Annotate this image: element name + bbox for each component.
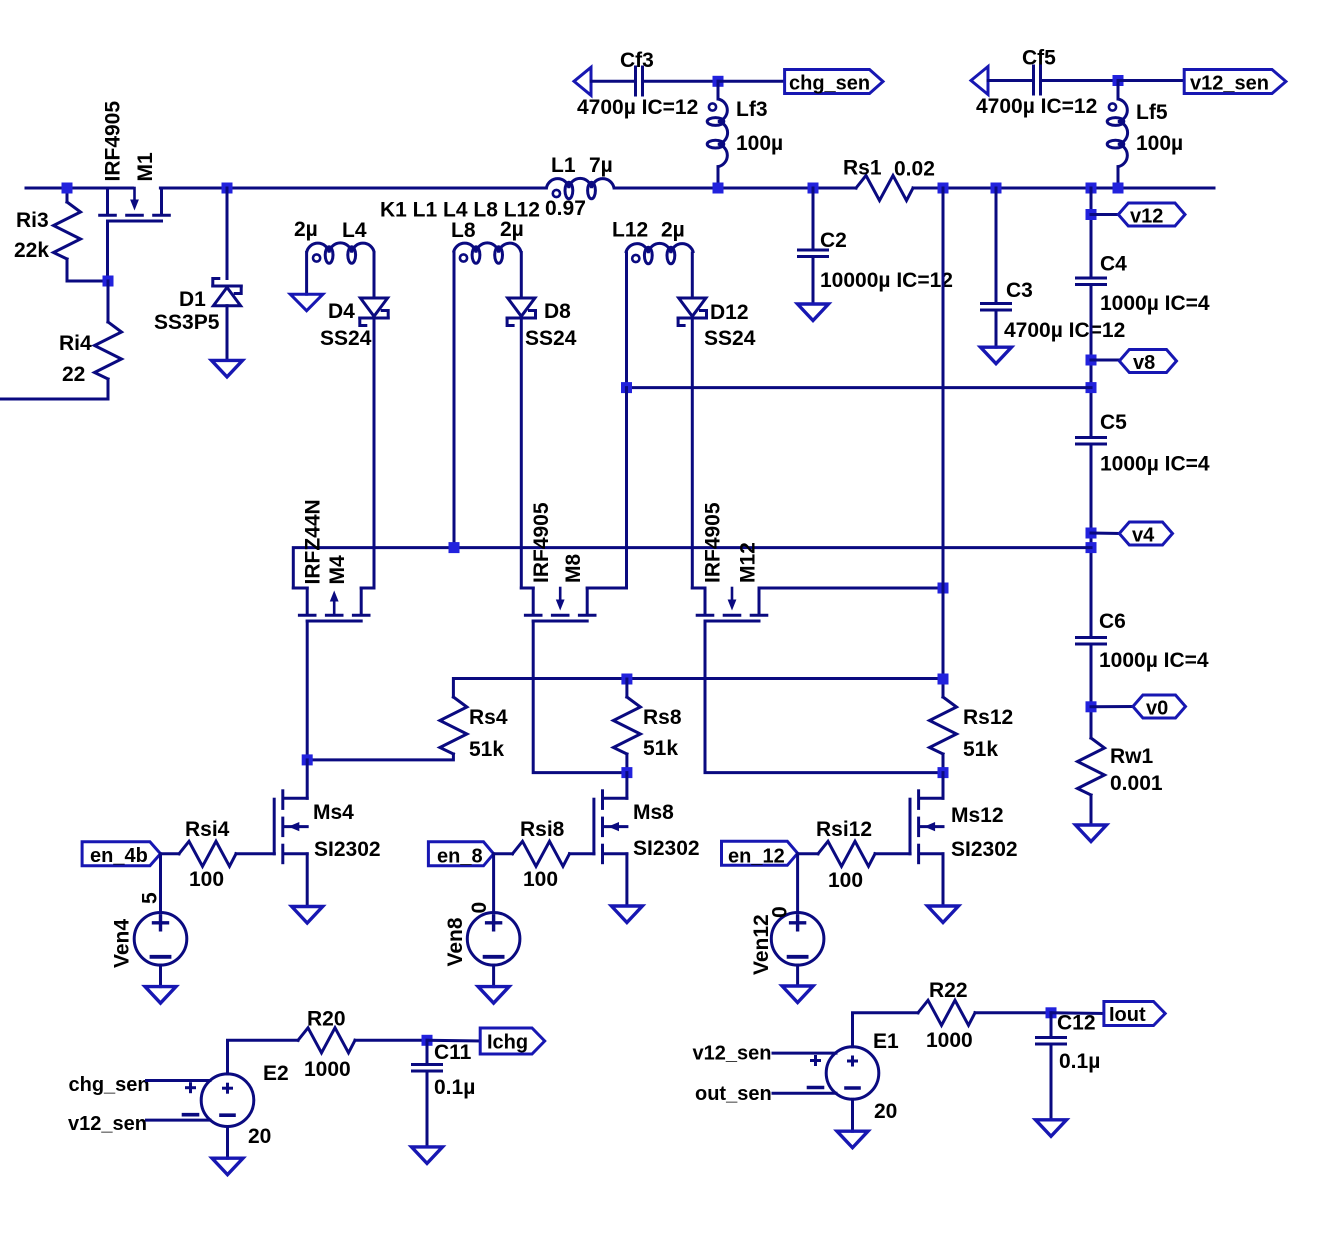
svg-text:Lf3: Lf3 — [736, 98, 768, 121]
wire L8 right to D8 — [520, 253, 523, 299]
inductor L8 — [454, 243, 522, 253]
wire L8 left down to v4 line — [453, 253, 456, 548]
svg-text:Rs8: Rs8 — [643, 706, 682, 729]
node junction R20-C11 — [422, 1035, 433, 1046]
source Ven4 — [134, 913, 187, 966]
svg-text:100µ: 100µ — [736, 132, 783, 155]
transistor M1 IRF4905 PMOS — [106, 188, 109, 214]
node junction chg_sen — [713, 76, 724, 87]
node junction bus-Rs12 line — [938, 183, 949, 194]
wire M1 gate to divider — [106, 221, 109, 281]
resistor R22 — [918, 1000, 975, 1025]
wire v4 tap — [1091, 532, 1119, 536]
capacitor C12 — [1050, 1013, 1053, 1038]
svg-text:v12_sen: v12_sen — [68, 1113, 147, 1135]
flag arrow L4 left — [290, 294, 323, 311]
diode D4 SS24 — [360, 298, 387, 316]
svg-text:4700µ IC=12: 4700µ IC=12 — [577, 96, 698, 119]
svg-text:0.97: 0.97 — [545, 197, 586, 220]
node junction bus-D1 — [222, 183, 233, 194]
svg-text:R20: R20 — [307, 1008, 346, 1031]
svg-text:Ri4: Ri4 — [59, 332, 92, 355]
svg-text:Ven4: Ven4 — [111, 919, 134, 968]
wire M4 gate down — [306, 621, 309, 760]
svg-text:IRF4905: IRF4905 — [102, 101, 125, 182]
svg-text:0.1µ: 0.1µ — [1059, 1050, 1100, 1073]
ground Ms4 — [292, 907, 323, 924]
node junction bus-C3 — [991, 183, 1002, 194]
svg-text:chg_sen: chg_sen — [69, 1074, 150, 1096]
ground Rw1 — [1076, 825, 1107, 842]
wire main 12V bus to L1 — [160, 187, 546, 190]
svg-text:M1: M1 — [134, 152, 157, 181]
svg-text:Rs1: Rs1 — [843, 157, 882, 180]
svg-text:v0: v0 — [1146, 698, 1168, 720]
resistor Rs1 — [856, 176, 913, 201]
ground E1 — [837, 1131, 868, 1148]
capacitor C2 — [812, 188, 815, 250]
svg-text:C2: C2 — [820, 229, 847, 252]
inductor L1 — [546, 178, 614, 188]
source E2 — [201, 1074, 254, 1127]
svg-text:M8: M8 — [562, 554, 585, 583]
svg-text:Rsi4: Rsi4 — [185, 818, 230, 841]
source Ven8 — [467, 913, 520, 966]
node junction gate divider — [103, 276, 114, 287]
wire M4 right rail — [361, 587, 374, 590]
wire Cf3 right to node — [643, 80, 719, 83]
svg-text:Iout: Iout — [1109, 1004, 1146, 1026]
node junction v0 tap — [1086, 701, 1097, 712]
capacitor Cf5 — [1032, 66, 1035, 94]
wire main 12V bus Rs1 to end — [913, 187, 1214, 190]
node junction R22-C12 — [1046, 1007, 1057, 1018]
svg-text:Cf3: Cf3 — [620, 49, 654, 72]
svg-text:Ms12: Ms12 — [951, 804, 1004, 827]
resistor Rsi4 — [161, 852, 180, 855]
wire en_8 down — [492, 854, 495, 913]
wire Ri4 bottom to edge — [0, 398, 108, 401]
ground Ven8 — [478, 987, 509, 1004]
resistor Rs4 — [440, 697, 467, 754]
wire node to chg_sen flag — [718, 80, 785, 83]
source E1 — [826, 1047, 879, 1100]
flag Ichg — [480, 1028, 545, 1054]
svg-text:v4: v4 — [1132, 525, 1155, 547]
wire bus to D1 — [226, 188, 229, 279]
svg-text:C6: C6 — [1099, 610, 1126, 633]
wire Cf5 right to node — [1041, 79, 1119, 82]
wire v12 tap — [1091, 213, 1118, 216]
svg-text:Rsi8: Rsi8 — [520, 818, 565, 841]
svg-text:100: 100 — [523, 868, 558, 891]
resistor Rsi8 — [494, 852, 513, 855]
capacitor C4 — [1077, 277, 1106, 280]
svg-text:C12: C12 — [1057, 1012, 1096, 1035]
node junction Rs12 top — [938, 674, 949, 685]
node junction v12_sen — [1113, 75, 1124, 86]
resistor Ri3 — [66, 188, 69, 202]
svg-text:2µ: 2µ — [500, 218, 524, 241]
wire D8 to M8 — [520, 318, 523, 588]
wire M8 left rail — [521, 587, 533, 590]
svg-text:IRF4905: IRF4905 — [702, 502, 725, 583]
wire E1 plus input — [773, 1052, 836, 1055]
wire M12 left rail — [692, 587, 705, 590]
diode D8 SS24 — [508, 298, 535, 316]
svg-text:0: 0 — [769, 906, 792, 918]
svg-text:1000µ IC=4: 1000µ IC=4 — [1099, 649, 1209, 672]
svg-text:Lf5: Lf5 — [1136, 101, 1168, 124]
node junction v4 line — [1086, 542, 1097, 553]
node junction v8 line — [1086, 382, 1097, 393]
node junction Lf3 bus — [713, 183, 724, 194]
svg-text:R22: R22 — [929, 979, 968, 1002]
inductor L4 — [307, 243, 375, 253]
source Ven12 — [771, 913, 824, 966]
svg-text:2µ: 2µ — [294, 218, 318, 241]
wire node to v12_sen flag — [1118, 79, 1184, 82]
flag en_12 — [722, 841, 798, 865]
resistor Rw1 — [1078, 738, 1105, 795]
wire E2 bottom — [226, 1127, 229, 1159]
svg-text:1000µ IC=4: 1000µ IC=4 — [1100, 292, 1210, 315]
wire L12 right to D12 — [691, 253, 694, 298]
flag v12 — [1118, 203, 1185, 226]
wire to Ichg flag — [427, 1039, 480, 1043]
wire Ven4 to ground — [159, 965, 162, 987]
node junction v12 tap — [1086, 209, 1097, 220]
diode D1 SS3P5 — [213, 285, 241, 288]
svg-text:L8: L8 — [451, 219, 476, 242]
flag v8 — [1119, 350, 1176, 373]
svg-text:10000µ IC=12: 10000µ IC=12 — [820, 269, 953, 292]
svg-text:Cf5: Cf5 — [1022, 47, 1056, 70]
svg-text:51k: 51k — [643, 737, 678, 760]
wire E1 minus input — [773, 1092, 836, 1095]
wire L4 left down — [305, 253, 308, 295]
svg-text:100: 100 — [189, 868, 224, 891]
svg-text:C4: C4 — [1100, 253, 1127, 276]
wire main 12V bus left segment — [26, 187, 133, 190]
flag v0 — [1133, 695, 1186, 718]
svg-text:SS24: SS24 — [704, 327, 756, 350]
svg-text:Ms8: Ms8 — [633, 801, 674, 824]
svg-text:L4: L4 — [342, 219, 367, 242]
svg-text:v12_sen: v12_sen — [1190, 73, 1269, 95]
svg-text:100µ: 100µ — [1136, 132, 1183, 155]
svg-text:IRFZ44N: IRFZ44N — [302, 499, 325, 584]
flag arrow Cf5 — [971, 67, 988, 95]
wire E1 bottom — [851, 1099, 854, 1131]
svg-text:out_sen: out_sen — [695, 1083, 772, 1105]
svg-text:22: 22 — [62, 363, 85, 386]
svg-text:v8: v8 — [1133, 352, 1155, 374]
wire M8 drain elbow up — [625, 388, 628, 588]
svg-text:22k: 22k — [14, 239, 49, 262]
wire E2 out up — [228, 1040, 299, 1074]
node junction Ms12 drain — [938, 767, 949, 778]
node junction M12 drain — [938, 583, 949, 594]
ground E2 — [212, 1158, 243, 1175]
svg-text:L1: L1 — [551, 154, 576, 177]
capacitor C11 — [426, 1040, 429, 1064]
ground C3 — [981, 347, 1012, 364]
ground C2 — [798, 304, 829, 321]
node junction bus-C2 — [808, 183, 819, 194]
flag chg_sen — [785, 70, 883, 94]
wire Ms8 drain — [625, 773, 628, 799]
svg-text:Ms4: Ms4 — [313, 801, 354, 824]
wire Rs top line — [453, 679, 943, 698]
svg-text:en_8: en_8 — [437, 846, 483, 868]
transistor M12 IRF4905 — [704, 588, 707, 614]
wire v8 net line — [627, 386, 1092, 389]
wire Ms4 drain — [306, 760, 309, 798]
node junction v4-L8 — [449, 542, 460, 553]
svg-text:L12: L12 — [612, 219, 648, 242]
ground D1 — [212, 360, 243, 377]
svg-text:2µ: 2µ — [661, 219, 685, 242]
wire ladder v12 segment — [1090, 188, 1093, 278]
svg-text:en_4b: en_4b — [90, 845, 148, 867]
node junction Ms8 drain — [621, 767, 632, 778]
wire Ms4 source — [306, 854, 309, 907]
svg-text:1000µ IC=4: 1000µ IC=4 — [1100, 453, 1210, 476]
svg-text:C5: C5 — [1100, 411, 1127, 434]
ground C11 — [412, 1147, 443, 1164]
svg-text:D4: D4 — [328, 300, 355, 323]
wire Ms12 source — [942, 854, 945, 906]
svg-text:M12: M12 — [737, 542, 760, 583]
transistor Ms4 SI2302 — [281, 791, 284, 809]
svg-text:IRF4905: IRF4905 — [530, 502, 553, 583]
resistor Rs8 — [625, 679, 628, 697]
svg-text:SI2302: SI2302 — [633, 837, 700, 860]
svg-text:0.1µ: 0.1µ — [434, 1076, 475, 1099]
ground Ven4 — [145, 987, 176, 1004]
wire Ms12 drain — [942, 773, 945, 799]
flag en_8 — [428, 842, 493, 866]
resistor R20 — [298, 1028, 355, 1053]
flag en_4b — [82, 842, 160, 866]
svg-text:SI2302: SI2302 — [951, 838, 1018, 861]
wire ladder v4 segment — [1090, 444, 1093, 638]
svg-text:SI2302: SI2302 — [314, 838, 381, 861]
wire main 12V bus L1 to Rs1 — [614, 187, 856, 190]
svg-text:en_12: en_12 — [728, 846, 785, 868]
svg-text:v12: v12 — [1130, 206, 1163, 228]
svg-text:0.02: 0.02 — [894, 158, 935, 181]
svg-text:100: 100 — [828, 869, 863, 892]
node junction Rs8 top — [621, 674, 632, 685]
wire M8 gate down — [533, 621, 627, 773]
inductor Lf3 — [717, 81, 720, 99]
svg-text:0.001: 0.001 — [1110, 772, 1163, 795]
flag v4 — [1119, 522, 1172, 545]
flag arrow Cf3 — [574, 67, 591, 95]
wire Ven12 to ground — [796, 965, 799, 986]
capacitor C3 — [995, 188, 998, 304]
svg-text:D12: D12 — [710, 301, 749, 324]
inductor Lf5 — [1117, 81, 1120, 100]
svg-text:Rs4: Rs4 — [469, 706, 508, 729]
svg-text:51k: 51k — [469, 738, 504, 761]
diode D12 SS24 — [679, 298, 706, 316]
svg-text:7µ: 7µ — [589, 154, 613, 177]
svg-text:v12_sen: v12_sen — [693, 1043, 772, 1065]
wire Cf5 left — [988, 79, 1034, 82]
svg-text:D1: D1 — [179, 288, 206, 311]
svg-text:0: 0 — [468, 902, 491, 914]
ground Ms12 — [928, 906, 959, 923]
node junction Lf5 bus — [1113, 183, 1124, 194]
svg-text:1000: 1000 — [926, 1029, 973, 1052]
capacitor C6 — [1077, 636, 1106, 639]
node junction bus-Ri3 — [62, 183, 73, 194]
wire L12 left down to v8 line — [625, 253, 628, 388]
wire M12 right rail — [759, 587, 943, 590]
svg-text:Rs12: Rs12 — [963, 706, 1013, 729]
svg-text:Rw1: Rw1 — [1110, 745, 1154, 768]
wire bus down to M12 rail — [942, 188, 945, 588]
wire D4 to M4 — [373, 318, 376, 588]
svg-text:20: 20 — [874, 1100, 897, 1123]
node junction Ms4 drain — [302, 754, 313, 765]
wire v8 tap — [1091, 359, 1119, 362]
wire M4 left rail — [293, 587, 307, 590]
capacitor Cf3 — [634, 67, 637, 95]
wire M8 right rail — [587, 587, 626, 590]
capacitor C5 — [1077, 436, 1106, 439]
svg-text:Ichg: Ichg — [487, 1032, 528, 1054]
wire Cf3 left — [591, 80, 636, 83]
svg-text:Ven12: Ven12 — [750, 914, 773, 975]
svg-text:SS3P5: SS3P5 — [154, 311, 220, 334]
wire E1 out up — [853, 1013, 919, 1047]
svg-text:C3: C3 — [1006, 279, 1033, 302]
node junction v4 tap — [1086, 528, 1097, 539]
svg-text:E1: E1 — [873, 1030, 899, 1053]
svg-text:SS24: SS24 — [525, 327, 577, 350]
node junction bus-ladder — [1086, 183, 1097, 194]
resistor Rsi12 — [798, 852, 818, 855]
node junction v8 tap — [1086, 355, 1097, 366]
flag Iout — [1104, 1002, 1165, 1026]
wire ladder v8 segment — [1090, 285, 1093, 438]
svg-text:E2: E2 — [263, 1062, 289, 1085]
wire M12 gate down — [705, 621, 943, 773]
ground Ven12 — [782, 986, 813, 1003]
transistor M8 IRF4905 — [532, 588, 535, 614]
wire v0 tap — [1091, 705, 1133, 708]
svg-text:51k: 51k — [963, 738, 998, 761]
inductor L12 — [626, 243, 694, 253]
wire E2 minus input — [147, 1119, 211, 1122]
wire D1 to ground — [226, 306, 229, 361]
resistor Ri4 — [107, 281, 110, 322]
transistor Ms8 SI2302 — [601, 791, 604, 809]
resistor Rs12 — [930, 697, 957, 754]
svg-text:Ven8: Ven8 — [444, 917, 467, 966]
wire v4 net line — [293, 548, 1091, 588]
wire to Iout flag — [1051, 1011, 1104, 1015]
wire E2 plus input — [147, 1079, 211, 1082]
svg-text:C11: C11 — [434, 1041, 472, 1064]
wire en_12 down — [796, 854, 799, 913]
ground C12 — [1036, 1120, 1067, 1137]
wire en_4b down — [159, 854, 162, 913]
svg-text:1000: 1000 — [304, 1058, 351, 1081]
transistor Ms12 SI2302 — [917, 791, 920, 809]
wire ladder v0 segment — [1090, 644, 1093, 738]
node junction v8-L12-M8 — [621, 382, 632, 393]
svg-text:4700µ IC=12: 4700µ IC=12 — [976, 95, 1097, 118]
svg-text:chg_sen: chg_sen — [789, 73, 870, 95]
svg-text:M4: M4 — [326, 555, 349, 584]
ground Ms8 — [611, 906, 642, 923]
svg-text:Rsi12: Rsi12 — [816, 818, 872, 841]
flag v12_sen — [1184, 70, 1286, 94]
svg-text:5: 5 — [139, 892, 162, 904]
transistor M4 IRFZ44N — [306, 588, 309, 614]
svg-text:D8: D8 — [544, 300, 571, 323]
wire D12 to M12 — [691, 318, 694, 588]
svg-text:SS24: SS24 — [320, 327, 372, 350]
wire Ms8 source — [625, 854, 628, 906]
wire M12 rail to Rs12 top — [942, 588, 945, 697]
svg-text:4700µ IC=12: 4700µ IC=12 — [1004, 319, 1125, 342]
wire L4 right to D4 — [373, 253, 376, 299]
wire Ven8 to ground — [492, 965, 495, 987]
svg-text:20: 20 — [248, 1125, 271, 1148]
svg-text:Ri3: Ri3 — [16, 209, 49, 232]
